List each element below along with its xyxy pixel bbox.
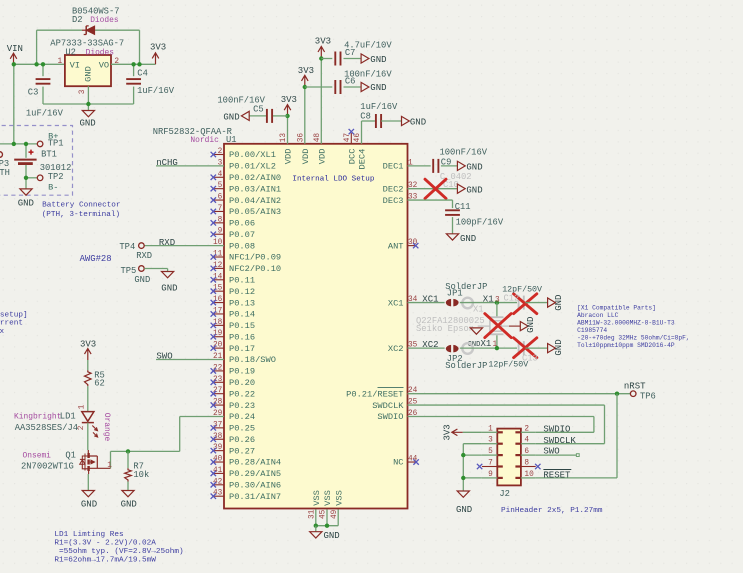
wire J2 pin1 3V3 (463, 431, 482, 433)
capacitor C13 ghost (519, 341, 524, 355)
ground at crystal left (468, 328, 483, 349)
svg-text:VSS: VSS (312, 490, 322, 506)
U1 pin 19 P0.16 (211, 330, 255, 342)
svg-text:GND: GND (84, 66, 94, 82)
wire bypass top right segment (95, 29, 139, 31)
power flag 3V3 at R5 (80, 339, 96, 360)
svg-text:GND: GND (554, 295, 564, 311)
wire C8 to gnd (381, 120, 401, 122)
power flag 3V3 pin36 (298, 66, 314, 87)
ground at C12 (548, 295, 564, 311)
svg-text:Kingbright: Kingbright (14, 413, 61, 422)
svg-text:current: current (0, 320, 23, 328)
svg-text:DEC3: DEC3 (383, 196, 404, 206)
power flag 3V3 at U2 output (150, 42, 166, 64)
svg-text:GND: GND (134, 275, 150, 285)
svg-text:NC: NC (393, 458, 403, 468)
svg-text:Abracon LLC: Abracon LLC (577, 312, 619, 319)
svg-text:TP4: TP4 (119, 242, 135, 252)
svg-text:3V3: 3V3 (80, 339, 96, 349)
U1 pin 34 XC1 (388, 296, 418, 308)
red X over C12 (514, 294, 537, 314)
wire R7 to gnd (127, 482, 129, 491)
svg-text:Tol±10ppm±10ppm SMD2016-4P: Tol±10ppm±10ppm SMD2016-4P (577, 342, 675, 349)
U1 top pin 13 VDD (280, 133, 294, 165)
svg-text:1: 1 (493, 341, 498, 349)
svg-text:C12: C12 (504, 294, 520, 304)
U2 pin GND (79, 66, 94, 94)
svg-text:7: 7 (488, 460, 493, 468)
U1 bottom pin 49 VSS (331, 490, 345, 526)
svg-text:P0.18/SWO: P0.18/SWO (229, 355, 276, 365)
wire SWO at J2 (536, 454, 580, 457)
label SWDCLK at J2 (543, 436, 576, 446)
U1 pin 29 P0.24 (213, 410, 255, 422)
svg-text:ANT: ANT (388, 241, 404, 251)
label SWO (156, 352, 172, 362)
U1 top pin 47 DCC (344, 133, 358, 165)
wire bottom gnd rail (43, 103, 134, 105)
svg-text:GND: GND (456, 505, 472, 515)
capacitor C6 wires (305, 86, 361, 88)
svg-text:Battery Connector: Battery Connector (42, 202, 120, 210)
ghost text C12 (504, 294, 520, 304)
solder jumper JP2 (446, 343, 473, 354)
svg-text:U1: U1 (226, 135, 237, 145)
wire B+ rail (0, 143, 37, 145)
testpoint TP2 (37, 172, 63, 193)
label RXD (159, 238, 175, 248)
svg-text:C1985774: C1985774 (577, 327, 607, 334)
svg-text:PTH: PTH (0, 168, 10, 178)
svg-text:P0.21/RESET: P0.21/RESET (346, 389, 403, 399)
wire VSS gnd rail (314, 524, 339, 528)
U1 pin 3 P0.01/XL2 (218, 159, 276, 171)
wire C12 to gnd (525, 302, 547, 304)
svg-text:PinHeader 2x5, P1.27mm: PinHeader 2x5, P1.27mm (501, 507, 603, 515)
svg-text:1uF/16V: 1uF/16V (137, 86, 175, 96)
wire DEC1 to C9 (408, 165, 431, 167)
svg-text:1: 1 (488, 425, 493, 433)
svg-text:10: 10 (524, 471, 534, 479)
svg-text:GND: GND (161, 284, 177, 294)
wire SWO to pin 21 (156, 359, 224, 361)
svg-text:VI: VI (70, 60, 80, 70)
wire VIN vertical to battery (13, 64, 15, 144)
ground below VSS (310, 526, 340, 541)
ground at J2 (456, 491, 472, 515)
svg-text:2: 2 (524, 425, 529, 433)
power flag VIN (7, 44, 23, 64)
transistor Q1 reference (23, 450, 76, 460)
svg-text:3V3: 3V3 (443, 424, 453, 440)
ground at crystal right (520, 317, 536, 333)
note LD1 limiting resistor (54, 531, 183, 565)
svg-text:SWDIO: SWDIO (543, 425, 570, 435)
svg-text:XC1: XC1 (422, 294, 438, 304)
IC U1 body (224, 144, 408, 509)
svg-text:SWO: SWO (543, 446, 559, 456)
no-connect J2 pin 8 (535, 464, 540, 469)
U1 pin 21 P0.18/SWO (213, 353, 276, 365)
svg-text:P0.07: P0.07 (229, 230, 255, 240)
U1 pin 23 P0.20 (211, 376, 255, 388)
svg-text:P0.13: P0.13 (229, 298, 255, 308)
svg-text:VDD: VDD (301, 149, 311, 165)
ground below battery (18, 189, 34, 209)
svg-text:TP1: TP1 (48, 139, 64, 149)
note battery connector (42, 202, 121, 219)
red plus mark (29, 150, 34, 155)
svg-text:P0.25: P0.25 (229, 424, 255, 434)
svg-text:GND: GND (80, 119, 96, 129)
svg-text:P0.31/AIN7: P0.31/AIN7 (229, 492, 281, 502)
wire RXD to pin 10 (144, 245, 224, 247)
IC U1 reference (190, 135, 236, 145)
svg-text:3V3: 3V3 (298, 66, 314, 76)
svg-text:[LDO setup]: [LDO setup] (0, 311, 28, 319)
svg-text:P0.22: P0.22 (229, 389, 255, 399)
svg-text:X1: X1 (481, 339, 492, 349)
U1 top pin 46 DEC4 (354, 133, 368, 170)
ghost text Q22FA12800025 (416, 316, 485, 326)
wire U2 output rail (111, 63, 156, 65)
wire 3V3 to R5 (87, 360, 89, 370)
ghost text C13 (522, 353, 538, 363)
svg-text:DEC1: DEC1 (383, 162, 404, 172)
label GND X1 pin 1 (481, 339, 498, 349)
svg-text:VSS: VSS (323, 490, 333, 506)
svg-text:P0.12: P0.12 (229, 287, 255, 297)
wire bypass top left segment (37, 29, 82, 31)
battery BT1 (14, 149, 71, 172)
svg-text:nRST: nRST (624, 381, 646, 391)
U1 top pin 48 VDD (314, 133, 328, 165)
svg-text:ABM11W-32.0000MHZ-8-B1U-T3: ABM11W-32.0000MHZ-8-B1U-T3 (577, 319, 675, 326)
svg-text:2N7002WT1G: 2N7002WT1G (21, 462, 74, 472)
wire J2 gnd bus (461, 444, 482, 491)
capacitor C6 (335, 69, 392, 94)
svg-text:3V3: 3V3 (150, 42, 166, 52)
wire P0.24 net (111, 416, 225, 468)
U1 pin 6 P0.04/AIN2 (211, 194, 282, 206)
svg-text:P0.08: P0.08 (229, 241, 255, 251)
svg-text:P0.26: P0.26 (229, 435, 255, 445)
svg-text:VDD: VDD (284, 149, 294, 165)
wire RESET net (536, 394, 617, 478)
wire R5 to LED (87, 386, 89, 411)
connector J2 reference (499, 489, 510, 499)
regulator U2 body (65, 55, 111, 86)
wire C9 to gnd (441, 165, 458, 167)
svg-text:VIN: VIN (7, 44, 23, 54)
svg-text:Internal LDO Setup: Internal LDO Setup (292, 175, 374, 183)
svg-text:12pF/50V: 12pF/50V (488, 360, 528, 370)
svg-text:P0.17: P0.17 (229, 344, 255, 354)
svg-text:Seiko Epson: Seiko Epson (416, 324, 474, 334)
svg-text:C8: C8 (360, 111, 371, 121)
note X1 compatible parts (577, 304, 690, 349)
svg-text:SWDCLK: SWDCLK (372, 401, 404, 411)
ground at TP5 (161, 272, 177, 294)
no-connect J2 pin 7 (477, 464, 482, 469)
svg-text:TP6: TP6 (640, 392, 656, 402)
svg-text:NFC1/P0.09: NFC1/P0.09 (229, 253, 281, 263)
U1 pin 41 P0.29/AIN5 (211, 467, 282, 479)
wire JP1 to C12 (460, 300, 517, 304)
capacitor C7 (335, 41, 392, 66)
svg-text:GND: GND (466, 185, 482, 195)
wire JP2 to C13 (460, 346, 517, 350)
label XC1 (422, 294, 438, 304)
power flag 3V3 at J2 (443, 424, 463, 440)
svg-text:P0.16: P0.16 (229, 332, 255, 342)
svg-text:C3: C3 (28, 87, 39, 97)
svg-text:P0.30/AIN6: P0.30/AIN6 (229, 481, 281, 491)
svg-text:GND: GND (370, 83, 386, 93)
capacitor C9 (433, 148, 488, 173)
label RESET at J2 (543, 470, 571, 481)
svg-text:TP2: TP2 (48, 172, 64, 182)
svg-text:100nF/16V: 100nF/16V (440, 148, 488, 158)
capacitor C4 (126, 64, 175, 104)
connector J2 pads (497, 432, 521, 478)
U1 pin 28 P0.23 (211, 399, 255, 411)
svg-text:8: 8 (524, 460, 529, 468)
wire XC2 to JP2 (408, 347, 445, 349)
U1 pin 42 P0.30/AIN6 (211, 478, 282, 490)
svg-text:=55ohm typ. (VF=2.8V→25ohm): =55ohm typ. (VF=2.8V→25ohm) (54, 548, 183, 556)
svg-text:C6: C6 (345, 77, 356, 87)
svg-text:P0.23: P0.23 (229, 401, 255, 411)
U2 pin VO (99, 58, 120, 70)
testpoint TP4 (119, 242, 152, 261)
IC U1 value NRF52832-QFAA-R (153, 127, 233, 137)
label nCHG (156, 158, 178, 168)
svg-text:DCC: DCC (348, 149, 358, 165)
svg-text:[X1 Compatible Parts]: [X1 Compatible Parts] (577, 304, 656, 311)
svg-text:C7: C7 (345, 48, 356, 58)
svg-text:GND: GND (81, 499, 97, 509)
capacitor C11 (445, 202, 504, 228)
svg-text:10k: 10k (133, 470, 149, 480)
wire DEC2 to gnd (408, 188, 458, 190)
solder jumper JP1 labels (445, 282, 487, 299)
svg-text:R1=62ohm→17.7mA/19.5mW: R1=62ohm→17.7mA/19.5mW (54, 556, 156, 564)
svg-text:GND: GND (410, 118, 426, 128)
U1 pin 47 DCC no-connect stub (349, 129, 354, 144)
wire battery bottom (25, 165, 27, 178)
crystal X1 ghost (478, 303, 521, 349)
svg-text:XC2: XC2 (388, 344, 404, 354)
svg-text:GND: GND (466, 162, 482, 172)
regulator U2 value AP7333-33SAG-7 (50, 38, 124, 48)
svg-text:3V3: 3V3 (281, 95, 297, 105)
U1 pin 17 P0.14 (211, 307, 255, 319)
U1 pin 43 P0.31/AIN7 (211, 490, 282, 502)
svg-text:Onsemi: Onsemi (23, 451, 52, 460)
svg-text:U2: U2 (65, 48, 76, 58)
ground at C10 (457, 184, 482, 195)
svg-text:P0.20: P0.20 (229, 378, 255, 388)
capacitor C8 (360, 102, 398, 128)
svg-text:Q1: Q1 (65, 450, 76, 460)
svg-text:6: 6 (524, 448, 529, 456)
note cut off at left edge (0, 311, 28, 336)
transistor Q1 value 2N7002WT1G (21, 462, 74, 472)
U1 pin 30 ANT stub (408, 243, 419, 248)
svg-text:D2: D2 (72, 15, 83, 25)
label nRST (624, 381, 646, 391)
U1 pin 26 SWDIO (377, 410, 417, 422)
svg-text:XC1: XC1 (388, 298, 404, 308)
svg-text:AP7333-33SAG-7: AP7333-33SAG-7 (50, 38, 124, 48)
ghost text X1 (473, 305, 484, 315)
junction dots battery (12, 142, 29, 180)
power flag 3V3 pin48 (315, 37, 331, 59)
wire SWDIO net (408, 416, 594, 432)
svg-text:AWG#28: AWG#28 (80, 254, 112, 264)
wire DEC3 to C11 (408, 200, 453, 208)
U1 pin 35 XC2 (388, 342, 418, 354)
wire SWDCLK net (408, 405, 605, 444)
red X over crystal X1 (485, 314, 511, 338)
ground at C6 (361, 82, 386, 93)
ground at Q1 (81, 491, 97, 510)
svg-text:LD1: LD1 (60, 412, 76, 422)
resistor R7 (125, 462, 150, 482)
svg-text:-20-+70deg 32MHz 50ohm/Ci=8pF,: -20-+70deg 32MHz 50ohm/Ci=8pF, (577, 334, 690, 341)
svg-text:GND: GND (370, 55, 386, 65)
svg-text:NFC2/P0.10: NFC2/P0.10 (229, 264, 281, 274)
svg-text:3: 3 (488, 437, 493, 445)
U1 pin 20 P0.17 (211, 342, 255, 354)
svg-text:x: x (0, 328, 5, 336)
capacitor C13 value (488, 360, 528, 370)
svg-text:LD1 Limting Res: LD1 Limting Res (54, 531, 123, 539)
svg-text:P0.04/AIN2: P0.04/AIN2 (229, 196, 281, 206)
wire nCHG to pin 3 (156, 165, 224, 167)
red X over C10 (425, 179, 446, 198)
red X over C13 (514, 338, 537, 358)
svg-text:100pF/16V: 100pF/16V (456, 218, 504, 228)
svg-text:SolderJP: SolderJP (445, 361, 487, 371)
svg-text:P0.02/AIN0: P0.02/AIN0 (229, 173, 281, 183)
ghost text C_0402 (440, 172, 472, 182)
wire TP2 stub (26, 177, 37, 179)
svg-text:BT1: BT1 (41, 149, 57, 159)
U1 pin 18 P0.15 (211, 319, 255, 331)
svg-text:RXD: RXD (159, 238, 175, 248)
ground at R7 (121, 491, 137, 510)
capacitor C3 (26, 64, 64, 118)
testpoint TP3 at edge (0, 152, 10, 178)
svg-text:P0.29/AIN5: P0.29/AIN5 (229, 469, 281, 479)
wire LED to Q1 drain (87, 423, 89, 450)
wire 3V3 to pin 13 VDD (285, 114, 289, 144)
svg-text:VDD: VDD (318, 149, 328, 165)
svg-text:P0.05/AIN3: P0.05/AIN3 (229, 207, 281, 217)
U1 pin 44 NC (393, 456, 418, 468)
U1 pin 2 P0.00/XL1 (211, 148, 276, 160)
wire bypass riser left (36, 30, 38, 64)
svg-text:XC2: XC2 (422, 340, 438, 350)
wire DEC4 to C8 (362, 121, 375, 144)
capacitor C5 wires (249, 115, 287, 117)
svg-text:1: 1 (107, 462, 112, 470)
U1 pin 4 P0.02/AIN0 (211, 171, 282, 183)
wire 3V3 to pin 36 VDD (303, 85, 307, 144)
U1 pin 11 NFC1/P0.09 (211, 251, 282, 263)
svg-text:X1: X1 (483, 294, 494, 304)
svg-text:GND: GND (554, 339, 564, 355)
svg-text:Diodes: Diodes (90, 16, 119, 25)
svg-text:P0.00/XL1: P0.00/XL1 (229, 150, 276, 160)
U1 pin 7 P0.05/AIN3 (211, 205, 282, 217)
power flag 3V3 pin13 (281, 95, 297, 116)
U1 pin 38 P0.26 (211, 433, 255, 445)
svg-text:9: 9 (488, 471, 493, 479)
svg-text:P0.15: P0.15 (229, 321, 255, 331)
ground at C9 (457, 161, 482, 172)
U1 pin 30 ANT (388, 239, 418, 251)
note pinheader (501, 507, 603, 515)
svg-text:AA3528SES/J4: AA3528SES/J4 (15, 423, 78, 433)
svg-text:P0.19: P0.19 (229, 367, 255, 377)
svg-text:P0.06: P0.06 (229, 219, 255, 229)
svg-text:X1: X1 (473, 305, 484, 315)
svg-text:VSS: VSS (334, 490, 344, 506)
svg-text:1: 1 (58, 58, 63, 66)
label SWDIO at J2 (543, 425, 570, 435)
wire XC1 to JP1 (408, 302, 445, 304)
svg-text:P0.24: P0.24 (229, 412, 255, 422)
svg-text:P0.03/AIN1: P0.03/AIN1 (229, 184, 281, 194)
diode D2 (82, 26, 95, 35)
svg-text:C11: C11 (455, 202, 471, 212)
transistor Q1 (0, 450, 112, 569)
LED LD1 value AA3528SES/J4 (15, 423, 78, 433)
ghost text Seiko Epson (416, 324, 474, 334)
wire bypass riser right (139, 30, 141, 64)
label X1 pin 3 (483, 294, 500, 304)
svg-text:4: 4 (524, 437, 529, 445)
U1 pin 39 P0.27 (211, 444, 255, 456)
wire VIN rail (14, 63, 65, 65)
svg-text:DEC2: DEC2 (383, 184, 404, 194)
capacitor C12 value (502, 284, 542, 294)
U1 pin 22 P0.19 (211, 364, 255, 376)
svg-text:GND: GND (324, 531, 340, 541)
svg-text:62: 62 (94, 378, 105, 388)
U1 pin 32 DEC2 (383, 182, 418, 194)
solder jumper JP1 (446, 298, 473, 309)
svg-text:GND: GND (121, 499, 137, 509)
U1 bottom pin 31 VSS (309, 490, 323, 526)
ground at C8 (402, 116, 427, 127)
U1 pin 8 P0.06 (211, 216, 255, 228)
LED LD1 (78, 404, 98, 437)
svg-text:P0.28/AIN4: P0.28/AIN4 (229, 458, 281, 468)
svg-text:(PTH, 3-terminal): (PTH, 3-terminal) (42, 211, 120, 219)
svg-text:P0.11: P0.11 (229, 275, 255, 285)
U1 bottom pin 45 VSS (320, 490, 334, 526)
U1 pin 25 SWDCLK (372, 399, 417, 411)
svg-text:C4: C4 (137, 69, 148, 79)
resistor R5 (85, 370, 105, 388)
capacitor C5 (217, 96, 272, 123)
svg-text:RXD: RXD (136, 251, 152, 261)
